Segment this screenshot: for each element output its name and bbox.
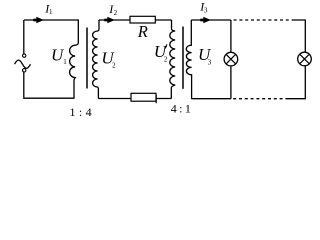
svg-text:1: 1 [63, 58, 67, 66]
svg-text:4 : 1: 4 : 1 [171, 102, 191, 116]
svg-text:2: 2 [164, 55, 168, 63]
svg-text:2: 2 [114, 9, 118, 17]
svg-text:3: 3 [204, 7, 208, 15]
svg-text:1: 1 [49, 8, 53, 16]
svg-text:1 : 4: 1 : 4 [70, 105, 93, 119]
svg-text:R: R [137, 22, 148, 41]
svg-text:2: 2 [112, 62, 116, 70]
svg-text:3: 3 [208, 59, 212, 67]
